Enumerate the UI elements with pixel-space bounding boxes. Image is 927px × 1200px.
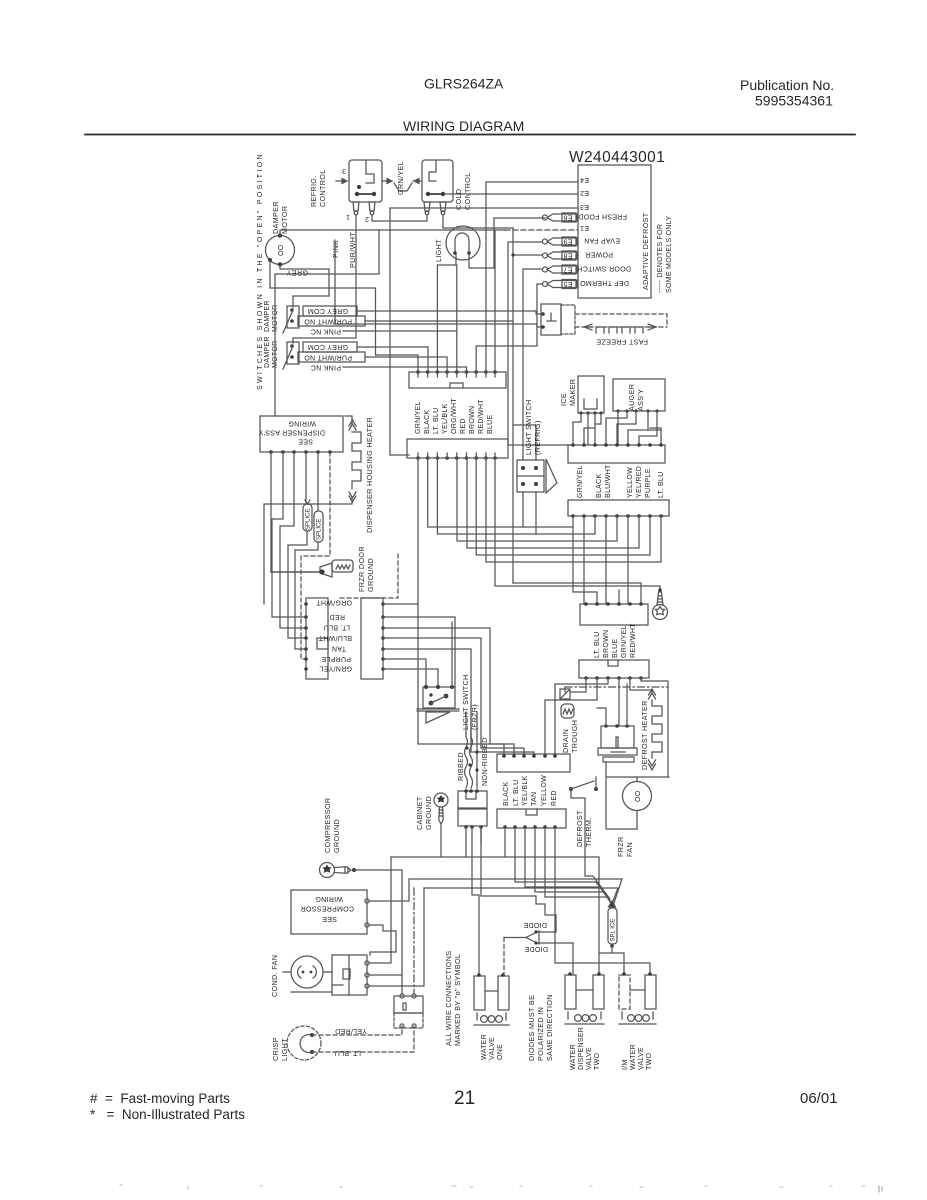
light label — [434, 239, 443, 262]
svg-text:RED/WHT: RED/WHT — [630, 623, 637, 658]
wire barT pin1 from bar2 — [418, 458, 504, 756]
wire bar2 pin9 to ground bolt — [495, 458, 660, 589]
svg-text:BROWN: BROWN — [603, 630, 610, 658]
wire terminal right row5 to barT pin4 — [383, 649, 534, 756]
svg-text:E6: E6 — [563, 214, 572, 221]
drain trough dash-dot wire — [565, 686, 668, 688]
svg-text:AUGER: AUGER — [627, 384, 636, 411]
wire terminal right row7 to light switch frzr pin2 — [383, 669, 438, 687]
svg-text:FRZR: FRZR — [616, 836, 625, 857]
wire E5 staircase to bar1 pin7 — [476, 284, 542, 372]
svg-text:BLU/WHT: BLU/WHT — [605, 464, 612, 498]
wire bar1 pin5 vertical — [456, 265, 458, 372]
svg-text:LIGHT: LIGHT — [434, 239, 443, 262]
see compressor wiring box — [291, 890, 367, 934]
wire PINK: refrig area down to fast freeze pin2 — [335, 240, 541, 327]
fast freeze dashed arrow line lower — [575, 326, 667, 328]
splice 2 — [314, 511, 323, 542]
svg-text:DAMPER: DAMPER — [264, 336, 271, 368]
adaptive defrost board — [578, 165, 651, 298]
splice ice — [608, 908, 617, 944]
svg-text:E2: E2 — [580, 189, 589, 196]
svg-text:GRN/YEL: GRN/YEL — [577, 465, 584, 498]
svg-text:SPLICE: SPLICE — [306, 509, 312, 530]
wire bar3B pin6 right down enclosure — [641, 678, 668, 777]
svg-text:3: 3 — [342, 167, 346, 174]
svg-text:E9: E9 — [563, 238, 572, 245]
svg-text:LT. BLU: LT. BLU — [658, 472, 665, 498]
wire defrost therm left staircase down — [571, 789, 610, 899]
svg-text:FRESH FOOD: FRESH FOOD — [578, 213, 627, 220]
svg-text:2: 2 — [365, 215, 369, 222]
wire dispenser pin5 into splice2 — [317, 452, 319, 511]
wire ribbed block pin2 to valve1 left — [472, 827, 479, 975]
svg-text:DIODE: DIODE — [523, 921, 547, 928]
crisp light dashed wires — [312, 1026, 402, 1035]
ground bolt (freezer) — [653, 588, 668, 619]
svg-text:GROUND: GROUND — [332, 819, 341, 853]
svg-text:VALVE: VALVE — [638, 1047, 645, 1070]
cabinet ground label — [415, 796, 433, 830]
damper motor switch 2 label — [264, 336, 279, 368]
wire run y555 — [476, 458, 650, 555]
svg-text:PURPLE: PURPLE — [321, 655, 351, 662]
water valve one — [474, 973, 509, 1025]
spade terminal E7 — [543, 265, 578, 274]
wire E8 to junction — [513, 228, 542, 583]
drain trough splice — [564, 687, 566, 692]
header model number — [403, 76, 834, 167]
svg-text:Publication No.: Publication No. — [740, 77, 834, 93]
bar3 bottom — [579, 660, 649, 678]
dispenser housing heater — [345, 416, 352, 424]
svg-text:GREY COM: GREY COM — [308, 343, 348, 350]
svg-text:RED: RED — [329, 613, 345, 620]
wire sw1 GREY COM to fast freeze pin1 — [357, 311, 541, 314]
svg-text:OO: OO — [635, 790, 642, 802]
frzr fan bracket — [606, 762, 669, 829]
svg-text:YELLOW: YELLOW — [541, 775, 548, 806]
svg-text:GREY: GREY — [286, 269, 308, 278]
connector bar 1 — [409, 372, 506, 388]
ribbed label — [456, 752, 465, 781]
water valve one label — [481, 1034, 504, 1060]
switches shown in the open position label — [257, 152, 264, 390]
svg-text:DISPENSER ASS'Y: DISPENSER ASS'Y — [258, 429, 325, 436]
wire sw2 PUR/WHT NO to bar1 pin4 — [365, 357, 447, 372]
wire sw2 PINK NC to bar1 pin6 — [343, 367, 467, 372]
svg-text:----- DENOTES FOR: ----- DENOTES FOR — [657, 224, 664, 293]
wire dispenser pin3 jog down — [280, 452, 306, 628]
svg-text:FAN: FAN — [625, 842, 634, 857]
svg-text:GREY COM: GREY COM — [308, 307, 348, 314]
wire relay pin3 from y888 run — [369, 888, 424, 986]
svg-text:WATER: WATER — [630, 1044, 637, 1070]
wire splice1 out — [288, 531, 307, 638]
svg-text:COMPRESSOR: COMPRESSOR — [300, 905, 354, 912]
wire barB pin1 stepped to diode — [481, 827, 556, 932]
svg-text:MAKER: MAKER — [568, 379, 577, 406]
svg-text:TAN: TAN — [531, 792, 538, 806]
fast freeze switch — [541, 304, 561, 335]
wire terminal right row3 to barT pin2 — [383, 628, 514, 756]
spade terminal E8 — [543, 251, 578, 260]
wire E8 junction to bar3T pin6 — [513, 583, 641, 604]
wire E1 vertical to bar1 pin9 — [494, 230, 496, 372]
wire cold pin2 down to junction — [443, 215, 513, 228]
svg-text:WATER: WATER — [481, 1034, 488, 1060]
wire sw1 PUR/WHT NO junction — [365, 320, 513, 322]
wire barB pin1b stub — [504, 827, 506, 857]
defrost therm switch — [569, 787, 598, 791]
terminal block right box — [361, 598, 383, 679]
wires ice maker to ice connector bar — [573, 413, 601, 445]
wire run y548 — [467, 458, 639, 548]
svg-text:DEFROST HEATER: DEFROST HEATER — [640, 700, 649, 770]
svg-text:LIGHT SWITCH: LIGHT SWITCH — [524, 399, 533, 455]
defrost therm label — [575, 810, 593, 847]
svg-text:COMPRESSOR: COMPRESSOR — [323, 798, 332, 853]
wire PUR/WHT: refrig pin1 down to damper switch2 — [293, 215, 356, 343]
wires light switch refrig bottom — [523, 492, 536, 534]
damper motor — [266, 236, 295, 265]
compressor relay — [332, 955, 367, 995]
svg-text:COLD: COLD — [454, 189, 463, 210]
wire run y534 — [437, 458, 595, 534]
wire bulb left to bar1 pin3 — [437, 255, 456, 372]
wire bar3B pin4 to canister — [618, 678, 620, 726]
wire refrig pin2 to cold pin1 — [372, 215, 427, 221]
svg-text:SPLICE: SPLICE — [317, 519, 323, 540]
wire E7 down to light switch refrig — [523, 269, 542, 460]
svg-text:OO: OO — [278, 244, 285, 256]
wire E2 row — [445, 193, 578, 195]
ice maker label — [559, 379, 577, 406]
diode output left dashed to valve1 — [504, 937, 526, 939]
wire ribbed block pin3 stub — [480, 827, 482, 843]
spade terminal E5 — [543, 280, 578, 289]
light switch refrig — [517, 460, 544, 492]
funnel feeds from barB pins — [515, 827, 610, 901]
svg-text:COND. FAN: COND. FAN — [270, 955, 279, 997]
svg-text:5995354361: 5995354361 — [755, 93, 833, 109]
svg-text:GLRS264ZA: GLRS264ZA — [424, 76, 504, 92]
ribbed wires — [465, 737, 468, 788]
svg-text:ADAPTIVE DEFROST: ADAPTIVE DEFROST — [641, 212, 650, 290]
cabinet ground bolt — [434, 793, 448, 824]
footer — [90, 1088, 838, 1122]
svg-text:ORG/WHT: ORG/WHT — [316, 599, 352, 606]
wire run y527 — [428, 458, 573, 527]
svg-text:E3: E3 — [580, 203, 589, 210]
svg-text:YEL/BLK: YEL/BLK — [442, 403, 449, 434]
damper motor switch 1 label — [264, 300, 279, 332]
svg-text:DIODE: DIODE — [524, 945, 548, 952]
wire barB pin6 to valve3 right — [555, 827, 650, 974]
bundle run y888 — [424, 888, 618, 901]
svg-text:GRN/YEL: GRN/YEL — [396, 161, 405, 195]
crisp light (dashed lamp) — [287, 1026, 321, 1060]
ice maker — [578, 376, 604, 413]
wire dispenser pin6 dashed — [301, 452, 330, 659]
light switch frzr — [423, 687, 455, 708]
wires auger to ice connector bar — [606, 411, 661, 445]
svg-text:CONTROL: CONTROL — [463, 172, 472, 210]
fast freeze dashed arrow line upper — [575, 314, 667, 327]
wire terminal right row4 to barT pin3 — [383, 638, 524, 756]
wires ribbed tops — [466, 712, 477, 737]
svg-text:GRN/YEL: GRN/YEL — [415, 401, 422, 434]
cond fan — [291, 956, 323, 988]
svg-text:RED/WHT: RED/WHT — [478, 399, 485, 434]
cabinet ground connector block — [458, 791, 487, 808]
bundle run y868 from compressor ground to block pin1 — [356, 870, 402, 994]
label YEL/RED — [335, 1027, 367, 1034]
wire bar3B pin2 to barT pin5 — [545, 678, 597, 754]
svg-text:LT. BLU: LT. BLU — [433, 408, 440, 434]
svg-text:VALVE: VALVE — [586, 1047, 593, 1070]
note: diodes must be polarized — [527, 994, 554, 1061]
damper motor label — [271, 201, 289, 234]
svg-text:PUR/WHT NO: PUR/WHT NO — [304, 318, 352, 325]
title underline — [85, 134, 855, 136]
wire compressor pin1 right and up to y879 run — [369, 879, 622, 903]
defrost thermostat canister — [598, 724, 637, 762]
svg-text:(REFRIG): (REFRIG) — [533, 420, 542, 455]
svg-text:PURPLE: PURPLE — [645, 468, 652, 498]
svg-text:FRZR DOOR: FRZR DOOR — [357, 546, 366, 592]
wire light switch frzr pin3 up — [451, 622, 453, 687]
wire splice ice out to valve2/valve3 — [599, 946, 624, 974]
label LT. BLU (crisp) — [335, 1049, 361, 1056]
wire branch to dispenser — [275, 230, 379, 416]
svg-text:DAMPER: DAMPER — [264, 300, 271, 332]
i/m water valve two label — [622, 1044, 653, 1070]
svg-text:PINK NC: PINK NC — [311, 328, 342, 335]
wire diode bottom rail to valve2 left — [572, 943, 574, 974]
svg-text:PINK NC: PINK NC — [311, 364, 342, 371]
grn/yel jumper wire — [382, 179, 392, 184]
svg-text:YEL/RED: YEL/RED — [636, 466, 643, 498]
svg-text:DRAIN: DRAIN — [561, 729, 570, 753]
wire relay pin1 from y857 run — [369, 857, 391, 963]
dispenser housing heater label — [365, 417, 374, 533]
wire bar3B pin1 to drain splice — [570, 678, 586, 692]
diode symbol — [526, 931, 539, 944]
svg-text:GROUND: GROUND — [366, 558, 375, 592]
wire sw2 GREY COM to bar1 pin2 — [357, 347, 428, 372]
wire run y562 — [486, 458, 661, 562]
svg-text:GRN/YEL: GRN/YEL — [319, 665, 352, 672]
svg-text:FAST FREEZE: FAST FREEZE — [596, 338, 648, 347]
svg-text:MARKED BY "o" SYMBOL: MARKED BY "o" SYMBOL — [453, 954, 462, 1046]
wire straight bar2R to bar3T — [584, 516, 628, 604]
svg-text:LT. BLU: LT. BLU — [513, 780, 520, 806]
dash-dot vertical to block pin2 — [413, 888, 415, 994]
arrow into refrig control pin 3 — [336, 179, 347, 184]
damper switch 1 — [287, 306, 299, 328]
svg-text:SEE: SEE — [298, 438, 313, 445]
svg-text:YEL/RED: YEL/RED — [335, 1027, 367, 1034]
wire bar3B pin5 to defrost heater top — [630, 678, 652, 694]
barT — [497, 754, 570, 772]
svg-text:TAN: TAN — [332, 645, 346, 652]
svg-text:CONTROL: CONTROL — [318, 169, 327, 207]
svg-text:VALVE: VALVE — [489, 1037, 496, 1060]
wire canister left pin stub — [597, 708, 606, 726]
frzr door ground label — [357, 546, 375, 592]
wire E3 row — [390, 208, 578, 455]
svg-text:BROWN: BROWN — [469, 406, 476, 434]
svg-text:SPL ICE: SPL ICE — [611, 919, 617, 942]
terminal row ORG/WHT dashed in — [340, 552, 398, 598]
wire run y541 — [457, 458, 617, 541]
switch1 GREY COM — [303, 306, 357, 316]
wire canister right pin stub — [626, 684, 628, 726]
svg-text:LT. BLU: LT. BLU — [324, 624, 350, 631]
note: all wire connections — [444, 951, 462, 1046]
svg-text:PUR/WHT NO: PUR/WHT NO — [304, 354, 352, 361]
cold control pins — [424, 202, 446, 211]
svg-text:ORG/WHT: ORG/WHT — [451, 398, 458, 434]
compressor ground bolt — [320, 863, 357, 878]
cold control switch — [422, 160, 453, 202]
svg-text:DISPENSER HOUSING HEATER: DISPENSER HOUSING HEATER — [365, 417, 374, 533]
cond fan label — [270, 955, 279, 997]
wire relay pin2 junction — [369, 974, 402, 976]
svg-text:RIBBED: RIBBED — [456, 752, 465, 781]
cold control label — [454, 172, 472, 210]
wire terminal right row2 to light switch frzr pin3 — [383, 617, 455, 687]
svg-text:NON-RIBBED: NON-RIBBED — [480, 737, 489, 786]
switch2 GREY COM — [303, 342, 357, 352]
PINK label — [331, 240, 340, 258]
svg-text:E1: E1 — [580, 224, 589, 231]
splice 1 — [303, 504, 312, 531]
svg-text:BLACK: BLACK — [424, 410, 431, 434]
wire E1 row dashed — [505, 229, 578, 231]
svg-text:21: 21 — [454, 1088, 475, 1109]
compressor ground label — [323, 798, 341, 853]
svg-text:SEE: SEE — [322, 915, 337, 922]
wire terminal right row6 to light switch frzr pin1 — [383, 659, 426, 687]
wire compressor pin2 to relay top — [369, 925, 396, 955]
switch2 PINK NC — [311, 364, 342, 371]
terminal block left box — [306, 598, 328, 679]
svg-text:EVAP FAN: EVAP FAN — [584, 237, 620, 244]
defrost heater label — [640, 700, 649, 770]
svg-text:DISPENSER: DISPENSER — [578, 1027, 585, 1070]
wire bar3B pin3 to barT pin6 — [555, 678, 608, 754]
svg-text:ICE: ICE — [559, 393, 568, 406]
drain trough label — [561, 720, 579, 753]
non-ribbed label — [480, 737, 489, 786]
diode label 2 — [524, 945, 548, 952]
switch1 PUR/WHT NO — [298, 316, 365, 326]
damper switch 2 — [287, 342, 299, 364]
refrig control label — [309, 169, 327, 207]
svg-text:REFRIG.: REFRIG. — [309, 175, 318, 207]
dispenser assy box — [260, 416, 343, 452]
defrost heater element — [649, 689, 656, 699]
svg-text:YEL/BLK: YEL/BLK — [522, 775, 529, 806]
wire splice2 out — [295, 542, 318, 649]
svg-text:WIRING DIAGRAM: WIRING DIAGRAM — [403, 118, 524, 134]
wire light switch refrig pin2 up — [513, 425, 536, 460]
bar3 labels — [594, 623, 637, 658]
refrig control pins 1,2 — [353, 202, 375, 211]
svg-text:SOME MODELS ONLY: SOME MODELS ONLY — [666, 216, 673, 293]
faint scan marks bottom edge — [120, 1185, 882, 1192]
wire terminal right row1 — [383, 603, 417, 605]
svg-text:DIODES MUST BE: DIODES MUST BE — [527, 995, 536, 1061]
svg-text:I/M: I/M — [622, 1059, 629, 1070]
bar3 top — [580, 604, 648, 625]
spade terminal E6 — [543, 213, 578, 222]
fast freeze wave symbol — [596, 327, 643, 333]
wire dispenser pin4 into splice1 — [305, 452, 310, 504]
wire damper left to bar1 pin1 — [270, 261, 418, 372]
svg-text:# = Fast-moving Parts: # = Fast-moving Parts — [90, 1091, 230, 1106]
svg-text:ALL WIRE CONNECTIONS: ALL WIRE CONNECTIONS — [444, 951, 453, 1046]
svg-text:SWITCHES SHOWN IN THE "OPEN" P: SWITCHES SHOWN IN THE "OPEN" POSITION — [257, 152, 264, 390]
wire dispenser pin1 down to frzr ground line — [270, 452, 272, 572]
label FAST FREEZE — [596, 338, 648, 347]
diode label 1 — [523, 921, 547, 928]
light switch frzr label — [461, 674, 479, 730]
svg-text:* = Non-Illustrated Parts: * = Non-Illustrated Parts — [90, 1107, 245, 1122]
barT labels — [503, 775, 558, 806]
svg-text:WIRING: WIRING — [315, 895, 343, 902]
terminal block left pins — [304, 602, 308, 671]
svg-text:DEF THERMO: DEF THERMO — [580, 279, 629, 286]
wire bulb right to E6 — [469, 218, 545, 268]
svg-text:DOOR SWITCH: DOOR SWITCH — [577, 265, 631, 272]
water dispenser valve two label — [570, 1027, 601, 1070]
svg-text:E5: E5 — [563, 280, 572, 287]
svg-text:POWER: POWER — [585, 251, 613, 258]
svg-text:LT. BLU: LT. BLU — [594, 632, 601, 658]
refrig control switch — [349, 160, 382, 202]
svg-text:BLACK: BLACK — [596, 474, 603, 498]
frzr fan label — [616, 836, 634, 857]
svg-text:BLUE: BLUE — [612, 638, 619, 658]
svg-text:DAMPER: DAMPER — [271, 201, 280, 234]
PUR/WHT label — [348, 232, 357, 268]
svg-text:BLUE: BLUE — [487, 414, 494, 434]
svg-text:RED: RED — [460, 418, 467, 434]
ice bar wire labels — [577, 464, 665, 498]
ice connector bar top — [568, 445, 665, 463]
crisp light label — [271, 1037, 289, 1061]
barB — [497, 809, 566, 828]
i/m water valve two — [619, 972, 656, 1024]
switch1 PINK NC — [311, 328, 342, 335]
light bulb — [446, 226, 480, 260]
light switch refrig label — [524, 399, 542, 455]
svg-text:TROUGH: TROUGH — [570, 720, 579, 753]
svg-text:SAME DIRECTION: SAME DIRECTION — [545, 994, 554, 1061]
wire E9 to bar2R pin1 — [508, 242, 573, 445]
svg-text:DEFROST: DEFROST — [575, 810, 584, 847]
connector bar 2 — [407, 439, 508, 458]
svg-text:TWO: TWO — [646, 1053, 653, 1070]
svg-text:BLACK: BLACK — [503, 782, 510, 806]
svg-text:1: 1 — [346, 213, 350, 220]
svg-text:CABINET: CABINET — [415, 796, 424, 830]
svg-text:RED: RED — [551, 790, 558, 806]
wire bar3T pin2 loop — [573, 527, 597, 604]
